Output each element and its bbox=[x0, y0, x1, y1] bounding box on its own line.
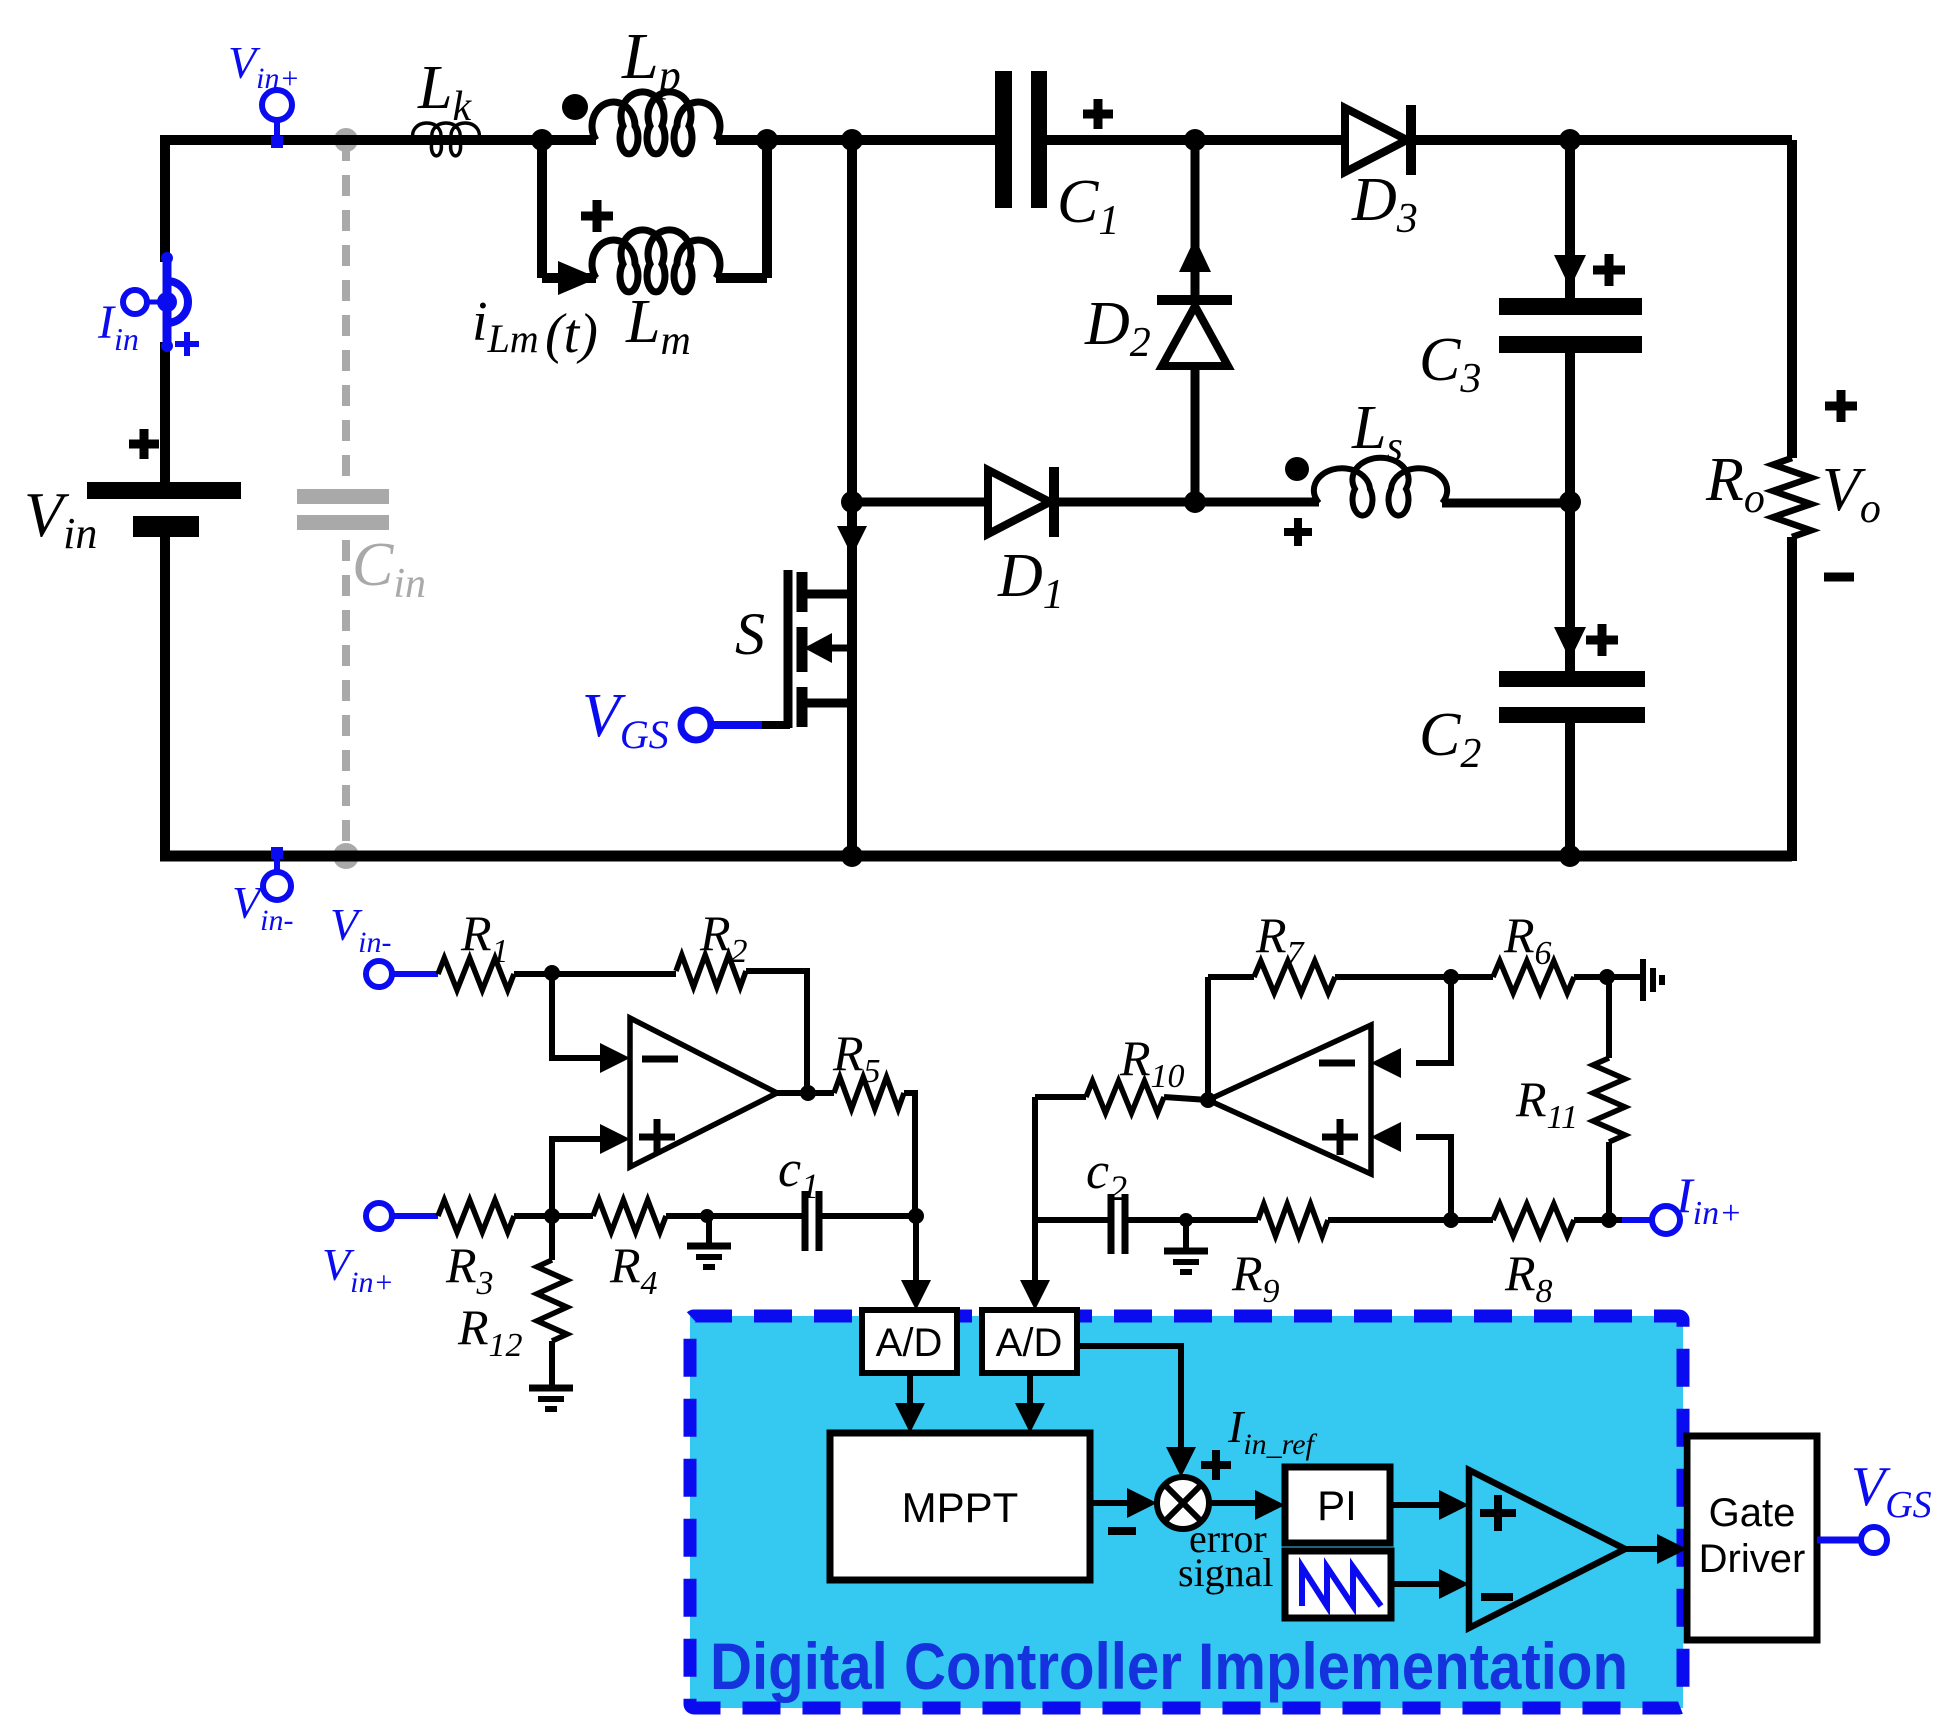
minus mark comparator bbox=[1481, 1593, 1513, 1601]
inductor Lm bbox=[592, 230, 720, 292]
wire to non-inverting input U2 bbox=[1416, 1137, 1451, 1220]
resistor R10 bbox=[1086, 1081, 1164, 1113]
node R9/R8/+input bbox=[1443, 1212, 1459, 1228]
ground near R4 bbox=[687, 1243, 731, 1250]
wire to c2 bbox=[1035, 1217, 1108, 1223]
resistor R12 bbox=[537, 1260, 567, 1341]
op-amp U2 (mirrored) bbox=[1208, 1025, 1371, 1174]
op-amp U1 bbox=[630, 1018, 777, 1167]
resistor R2 bbox=[676, 955, 746, 987]
svg-text:Digital Controller Implementat: Digital Controller Implementation bbox=[710, 1629, 1628, 1703]
inductor Lp bbox=[592, 92, 720, 154]
arrow into summer left bbox=[1127, 1488, 1157, 1518]
node C2 bottom rail bbox=[1559, 845, 1581, 867]
arrow into inverting input U2 bbox=[1371, 1048, 1401, 1078]
plus mark C3 bbox=[1593, 266, 1625, 275]
current arrow into C2 bbox=[1554, 627, 1586, 660]
resistor R8 bbox=[1493, 1204, 1574, 1236]
wire switch node to D1 bbox=[852, 498, 988, 507]
ground near c2 bbox=[1164, 1248, 1208, 1255]
resistor R1 bbox=[438, 958, 514, 990]
node D1/D2/Ls bbox=[1184, 491, 1206, 513]
resistor R7 bbox=[1254, 961, 1335, 993]
minus mark U1 bbox=[642, 1056, 678, 1063]
capacitor C1 left plate bbox=[995, 71, 1012, 208]
wire c2 to R9 bbox=[1125, 1217, 1258, 1223]
terminal Vin+ opamp input bbox=[366, 1203, 392, 1229]
diode D1 bbox=[988, 470, 1050, 534]
plus mark U2 bbox=[1322, 1134, 1358, 1141]
wire blue Vin- lead bbox=[392, 971, 438, 977]
wire to non-inverting input bbox=[552, 1139, 600, 1216]
wire R10 branch vertical bbox=[1032, 1097, 1038, 1220]
wire R3 to R4 bbox=[514, 1213, 593, 1219]
svg-text:(t): (t) bbox=[545, 303, 598, 365]
capacitor C2 bottom plate bbox=[1499, 707, 1645, 723]
resistor Ro bbox=[1773, 458, 1811, 537]
wire to Lm bbox=[542, 273, 596, 283]
wire Lp/Lm left branch bbox=[537, 140, 547, 278]
ground below R12 bbox=[529, 1385, 573, 1392]
wire Ls to C2 node bbox=[1442, 499, 1570, 508]
terminal Vin+ bbox=[274, 120, 280, 142]
terminal Iin+ bbox=[1652, 1206, 1680, 1234]
node Lp right junction bbox=[756, 129, 778, 151]
node source bottom rail bbox=[841, 845, 863, 867]
node c1/R5/AD bbox=[908, 1208, 924, 1224]
summing junction (error) bbox=[1157, 1477, 1209, 1529]
wire D1 to D2 node bbox=[1054, 498, 1195, 507]
capacitor C3 bottom plate bbox=[1499, 336, 1642, 353]
wire R11 to R8 node bbox=[1606, 1142, 1612, 1220]
phase dot Ls bbox=[1285, 457, 1309, 481]
minus mark summer bbox=[1108, 1527, 1136, 1535]
current arrow into C3 bbox=[1554, 255, 1586, 288]
wire right rail upper bbox=[1787, 140, 1797, 458]
wire corner to R10 bbox=[1035, 1094, 1086, 1100]
wire R1 to R2 bbox=[514, 971, 676, 977]
capacitor Cin top plate bbox=[297, 489, 389, 504]
wire to A/D 2 bbox=[1032, 1220, 1038, 1282]
wire stem to ground 2 bbox=[1183, 1220, 1189, 1251]
wire blue Vin+ lead bbox=[392, 1213, 438, 1219]
resistor R6 bbox=[1493, 961, 1574, 993]
capacitor Cin dashed lead top bbox=[342, 140, 350, 480]
plus mark Ls bbox=[1284, 528, 1312, 536]
arrow into non-inverting input U1 bbox=[600, 1124, 630, 1154]
wire to R12 bbox=[549, 1216, 555, 1260]
current sensor Iin bbox=[163, 257, 172, 347]
resistor R3 bbox=[438, 1200, 514, 1232]
inductor Lk bbox=[413, 123, 480, 156]
svg-text:MPPT: MPPT bbox=[902, 1484, 1019, 1531]
transistor S (MOSFET) bbox=[784, 570, 793, 728]
capacitor c2 bbox=[1108, 1194, 1115, 1254]
wire R7 to R6 bbox=[1335, 974, 1493, 980]
battery Vin long plate bbox=[87, 482, 241, 499]
wire summer to PI bbox=[1209, 1500, 1255, 1506]
arrow into summer top bbox=[1166, 1447, 1196, 1477]
wire R4 to c1 bbox=[666, 1213, 802, 1219]
wire R6 node to R11 bbox=[1606, 977, 1612, 1058]
wire A/D2 to MPPT bbox=[1027, 1373, 1033, 1405]
wire D3 node to C3 bbox=[1565, 140, 1575, 298]
phase dot Lp bbox=[562, 94, 588, 120]
arrow into non-inverting input U2 bbox=[1371, 1122, 1401, 1152]
plus mark at Iin bbox=[175, 341, 199, 347]
node R8/R11/Iin+ bbox=[1601, 1212, 1617, 1228]
ground (right-facing) bbox=[1640, 959, 1646, 1001]
digital controller block (cyan dashed box) bbox=[690, 1316, 1683, 1708]
wire R9 to R8 bbox=[1328, 1217, 1493, 1223]
current arrow into switch bbox=[837, 526, 867, 556]
wire top rail mid segment (to C1) bbox=[716, 135, 995, 145]
node C1/D2/D3 bbox=[1184, 129, 1206, 151]
svg-text:signal: signal bbox=[1178, 1550, 1274, 1595]
block PI bbox=[1285, 1467, 1390, 1543]
minus mark Vo bbox=[1824, 573, 1854, 582]
plus mark comparator bbox=[1480, 1509, 1516, 1517]
arrow into gate driver bbox=[1657, 1534, 1687, 1564]
wire right rail lower bbox=[1787, 537, 1797, 861]
wire A/D2 to summer bbox=[1077, 1346, 1181, 1452]
wire C2 to bottom rail bbox=[1565, 723, 1575, 856]
capacitor Cin bottom plate bbox=[297, 515, 389, 530]
node inverting input branch bbox=[544, 965, 560, 981]
capacitor C2 top plate bbox=[1499, 671, 1645, 687]
battery Vin short plate bbox=[133, 516, 199, 537]
resistor R4 bbox=[593, 1200, 666, 1232]
arrow into MPPT right bbox=[1015, 1403, 1045, 1433]
wire to A/D 1 bbox=[913, 1216, 919, 1282]
svg-text:Driver: Driver bbox=[1699, 1537, 1806, 1581]
block A/D converter 1 bbox=[862, 1310, 957, 1373]
node R6/R11 bbox=[1599, 969, 1615, 985]
node U2 output/R7/R10 bbox=[1200, 1092, 1216, 1108]
wire R10 to U2 node bbox=[1164, 1097, 1208, 1100]
wire top rail C1 to D3 bbox=[1047, 135, 1345, 145]
wire Lp/Lm right branch bbox=[762, 140, 772, 278]
svg-text:Gate: Gate bbox=[1709, 1491, 1796, 1535]
wire left rail to battery bbox=[160, 342, 170, 486]
arrow into MPPT left bbox=[895, 1403, 925, 1433]
wire left rail upper bbox=[160, 135, 170, 262]
arrow into A/D 1 bbox=[901, 1280, 931, 1310]
inductor Ls bbox=[1314, 458, 1447, 516]
terminal Vin- bbox=[274, 855, 280, 872]
wire R7 left down to U2 output bbox=[1205, 977, 1211, 1100]
arrow into comparator plus bbox=[1439, 1490, 1469, 1520]
battery Vin plus mark bbox=[129, 440, 159, 449]
capacitor C3 top plate bbox=[1499, 298, 1642, 315]
plus mark C1 bbox=[1083, 110, 1113, 119]
node R3/R12/+input bbox=[544, 1208, 560, 1224]
wire Lm right bbox=[716, 273, 767, 283]
terminal VGS bbox=[711, 721, 762, 729]
block A/D converter 2 bbox=[982, 1310, 1077, 1373]
wire R2 feedback down bbox=[746, 971, 807, 1093]
capacitor Cin dashed lead bottom bbox=[342, 540, 350, 856]
terminal Vin- opamp input bbox=[366, 961, 392, 987]
node c2/ground bbox=[1179, 1213, 1193, 1227]
wire left rail battery to bottom bbox=[160, 532, 170, 856]
resistor R9 bbox=[1258, 1204, 1328, 1236]
wire top rail left segment bbox=[165, 135, 596, 145]
svg-text:A/D: A/D bbox=[996, 1321, 1063, 1365]
wire sawtooth to comparator bbox=[1391, 1581, 1439, 1587]
wire D2 node to Ls bbox=[1195, 498, 1319, 507]
wire U1 output bbox=[777, 1090, 834, 1096]
wire to inverting input U2 bbox=[1416, 977, 1451, 1063]
svg-text:PI: PI bbox=[1317, 1482, 1357, 1529]
plus mark C2 bbox=[1586, 636, 1618, 645]
node drain/D1 junction bbox=[841, 491, 863, 513]
block Gate Driver bbox=[1687, 1436, 1817, 1640]
plus mark summer bbox=[1201, 1461, 1231, 1469]
diode D3 bbox=[1345, 108, 1407, 172]
wire c1 to R5 node bbox=[819, 1213, 916, 1219]
block sawtooth generator bbox=[1285, 1551, 1391, 1618]
plus mark U1 bbox=[639, 1134, 675, 1141]
wire MPPT to summer bbox=[1090, 1500, 1134, 1506]
arrow into A/D 2 bbox=[1020, 1280, 1050, 1310]
wire blue Iin+ lead bbox=[1622, 1217, 1652, 1223]
diode D2 bbox=[1191, 140, 1200, 300]
block MPPT bbox=[830, 1433, 1090, 1580]
wire corner to R7 bbox=[1208, 974, 1254, 980]
node Lp left junction bbox=[531, 129, 553, 151]
wire stem to ground bbox=[706, 1216, 712, 1246]
wire C3 to Ls node bbox=[1565, 353, 1575, 506]
node top rail drain branch bbox=[841, 129, 863, 151]
node Cin top junction (grey) bbox=[334, 128, 358, 152]
resistor R11 bbox=[1593, 1058, 1625, 1142]
capacitor C1 right plate bbox=[1031, 71, 1047, 208]
wire bottom rail bbox=[160, 851, 1792, 862]
wire Ls node to C2 bbox=[1565, 502, 1575, 671]
wire A/D1 to MPPT bbox=[907, 1373, 913, 1405]
arrow into PI bbox=[1255, 1490, 1285, 1520]
capacitor c1 bbox=[802, 1191, 809, 1251]
wire comparator to gate driver bbox=[1625, 1546, 1657, 1552]
wire to inverting input bbox=[552, 973, 600, 1058]
svg-text:A/D: A/D bbox=[876, 1321, 943, 1365]
wire R12 to ground bbox=[549, 1341, 555, 1388]
terminal VGS output bbox=[1817, 1537, 1861, 1544]
comparator bbox=[1469, 1470, 1625, 1628]
node U1 output bbox=[800, 1085, 816, 1101]
plus mark Vo bbox=[1825, 402, 1857, 411]
wire drain branch vertical bbox=[847, 140, 857, 594]
node Ls/C3/C2 bbox=[1559, 491, 1581, 513]
wire R6 to ground bbox=[1574, 974, 1641, 980]
svg-text:S: S bbox=[735, 601, 765, 667]
current arrow iLm bbox=[558, 261, 598, 295]
wire R8 to Iin+ node bbox=[1574, 1217, 1652, 1223]
wire R5 down bbox=[904, 1093, 915, 1216]
resistor R5 bbox=[834, 1077, 904, 1109]
node D3/C3 top bbox=[1559, 129, 1581, 151]
wire PI to comparator bbox=[1390, 1502, 1439, 1508]
plus mark Lm bbox=[581, 212, 613, 221]
node R4/ground bbox=[700, 1209, 714, 1223]
node Cin bottom junction (grey) bbox=[333, 843, 359, 869]
arrow into comparator minus bbox=[1439, 1569, 1469, 1599]
arrow into inverting input U1 bbox=[600, 1043, 630, 1073]
sawtooth waveform bbox=[1302, 1567, 1381, 1606]
wire top rail D3 to right corner bbox=[1416, 135, 1792, 145]
node inverting branch U2 bbox=[1443, 969, 1459, 985]
minus mark U2 bbox=[1319, 1060, 1355, 1067]
